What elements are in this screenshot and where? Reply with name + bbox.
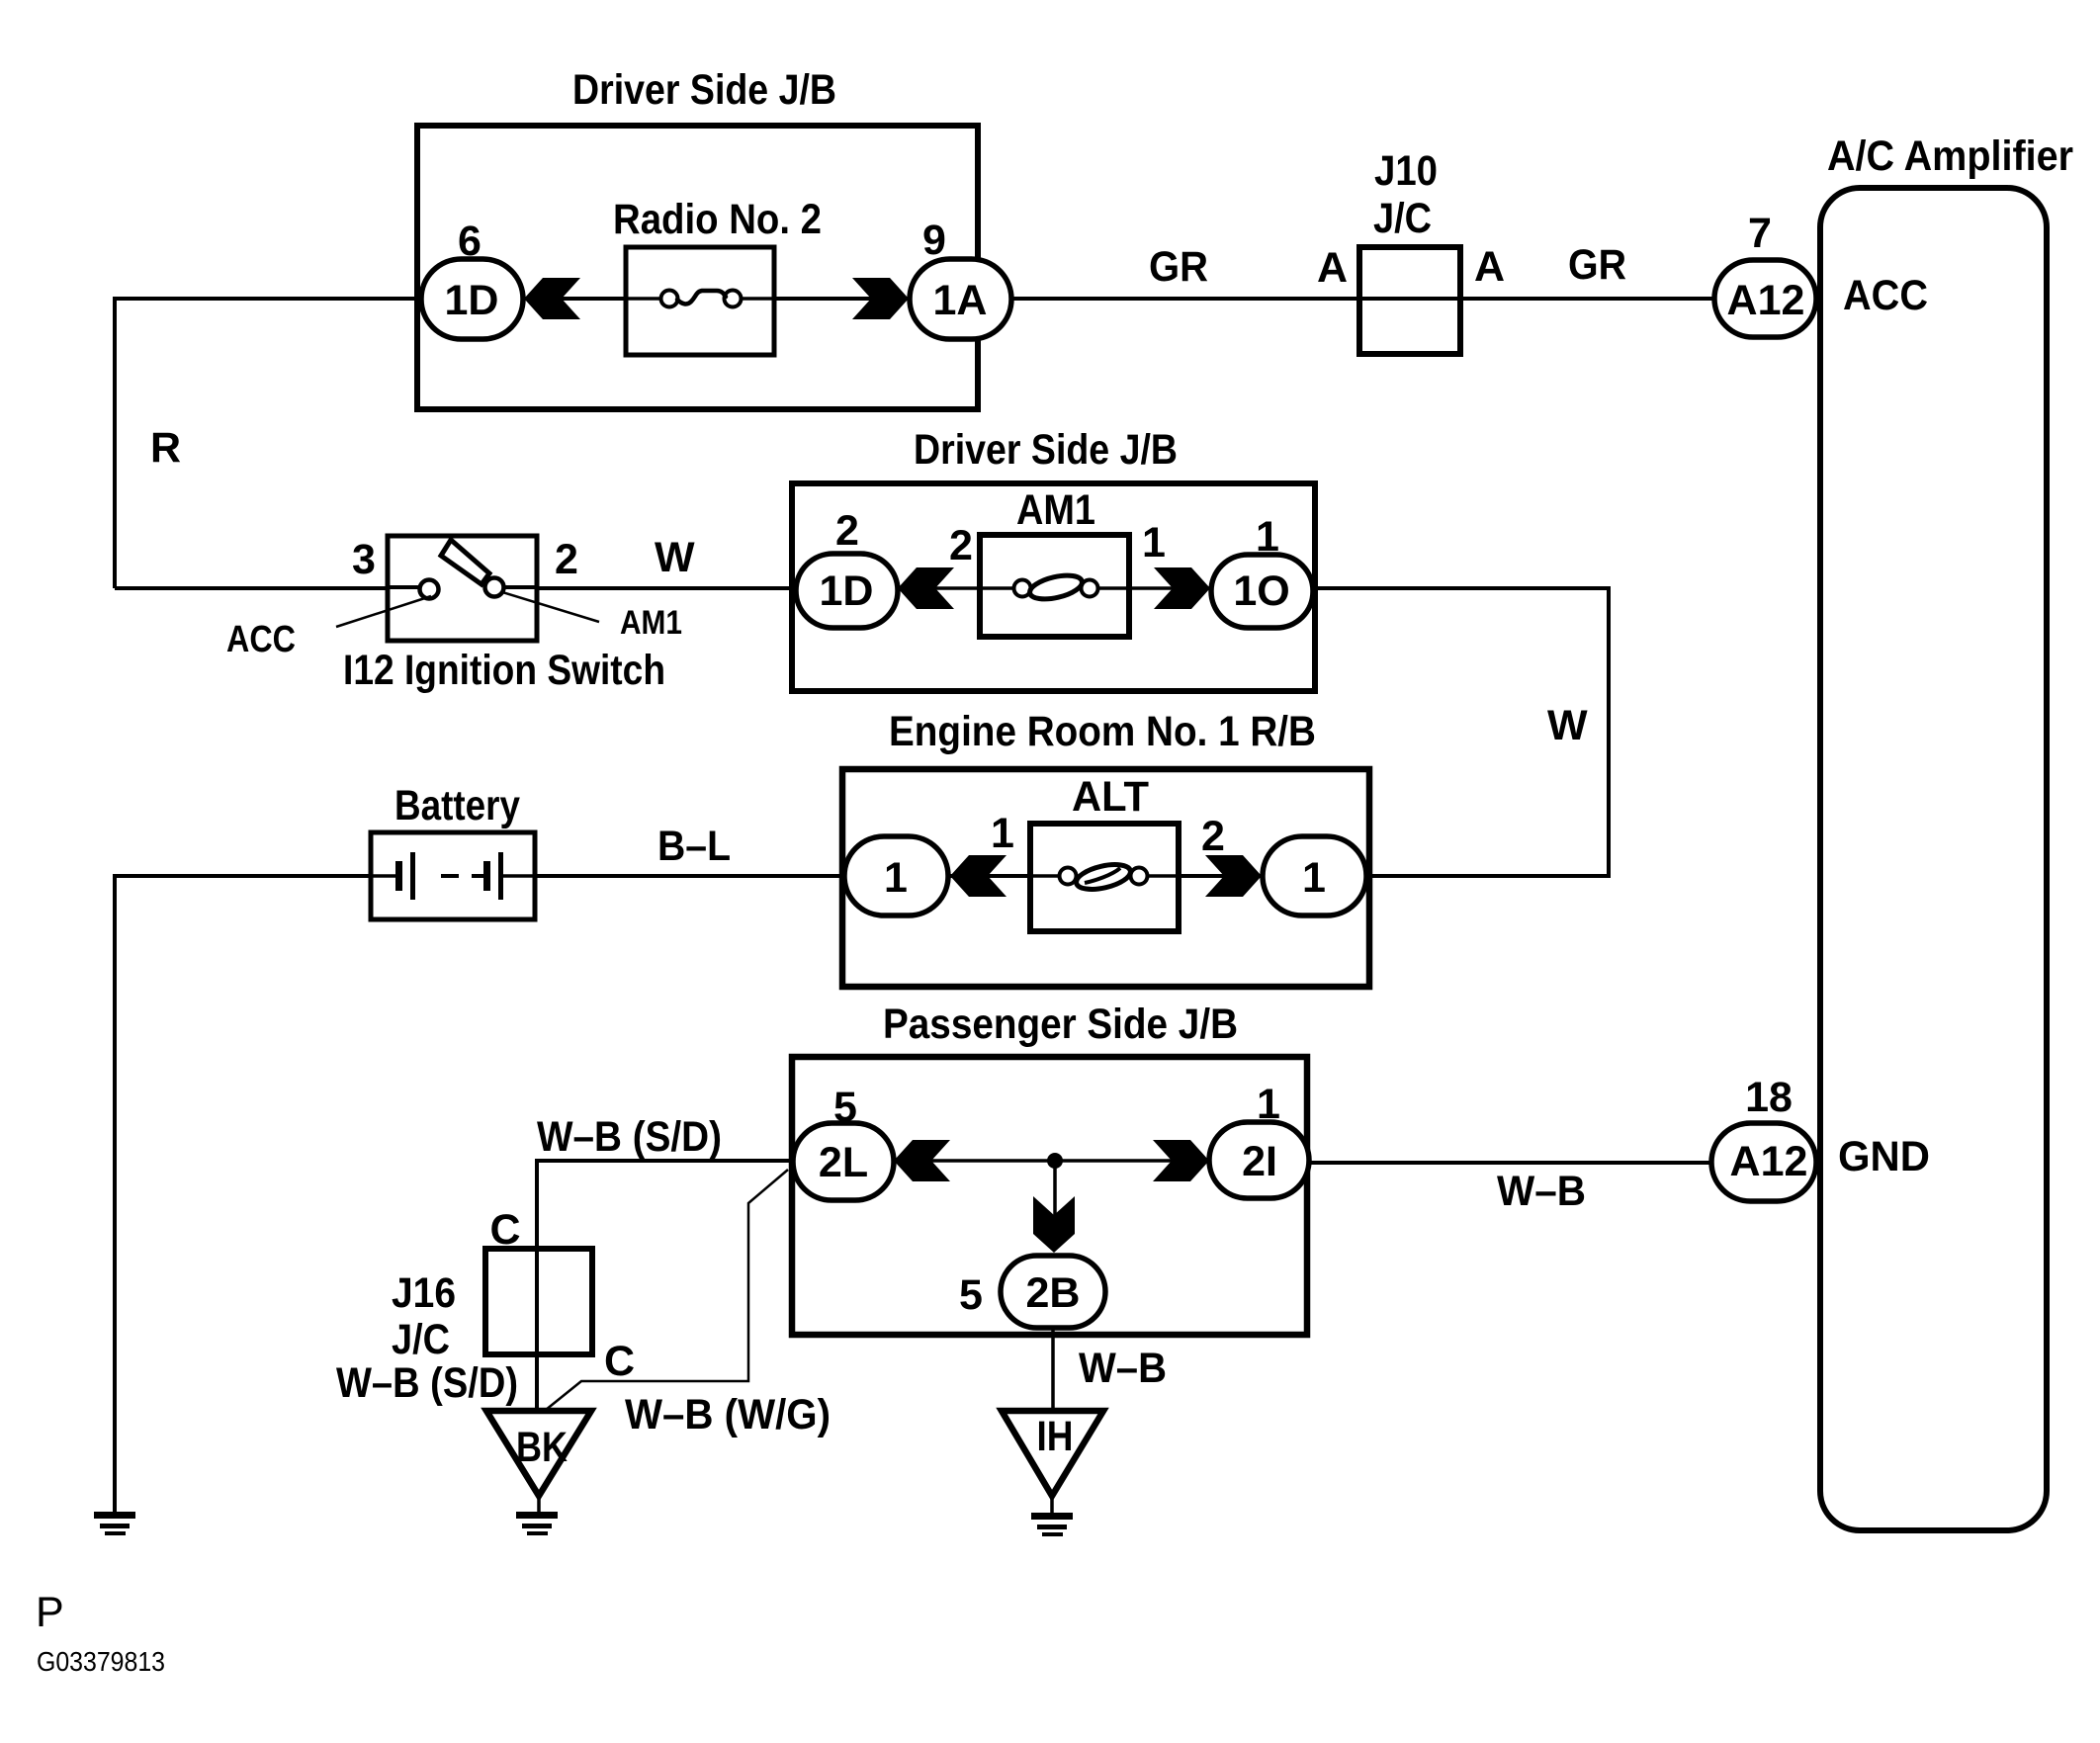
svg-text:J10: J10 xyxy=(1374,147,1438,195)
svg-text:2: 2 xyxy=(1201,813,1225,860)
wire: IH triangle to ground xyxy=(1050,1496,1054,1514)
svg-text:A: A xyxy=(1317,244,1348,292)
svg-text:2I: 2I xyxy=(1242,1138,1277,1185)
connector: oval 1O pin 1 xyxy=(1211,555,1313,628)
svg-text:5: 5 xyxy=(833,1084,857,1131)
svg-text:1: 1 xyxy=(991,810,1014,857)
arrow: left-pointing at 2L xyxy=(894,1140,950,1181)
svg-text:A12: A12 xyxy=(1730,1138,1808,1185)
svg-text:W: W xyxy=(1547,702,1588,749)
svg-text:AM1: AM1 xyxy=(1016,486,1095,534)
svg-text:7: 7 xyxy=(1748,210,1772,257)
svg-text:6: 6 xyxy=(458,218,481,265)
wire: battery negative down to ground xyxy=(113,874,117,1513)
connector: oval 1D pin 6 xyxy=(421,259,523,339)
svg-text:BK: BK xyxy=(516,1424,568,1471)
connector: oval A12 pin 7 (ACC) xyxy=(1714,260,1816,337)
junction: dot on W-B run xyxy=(1047,1153,1063,1169)
wire: W from 1O right, down to alternator output level xyxy=(1311,588,1609,876)
arrow: left-pointing engine room xyxy=(950,855,1006,897)
wire: R horizontal into ignition switch xyxy=(115,586,388,590)
svg-text:ACC: ACC xyxy=(226,619,296,660)
ground: IH triangle xyxy=(1002,1411,1103,1496)
svg-text:A: A xyxy=(1474,243,1505,291)
wire: stub to ACC contact xyxy=(388,585,421,589)
wire: ACC feed top horizontal (R/GR run) xyxy=(115,297,1714,301)
connector: oval 2I pin 1 xyxy=(1209,1122,1309,1198)
arrow: right-pointing at 2I xyxy=(1153,1140,1209,1181)
ground: BK ground symbol xyxy=(516,1512,558,1535)
svg-text:Driver Side J/B: Driver Side J/B xyxy=(572,66,836,114)
svg-text:C: C xyxy=(489,1206,520,1254)
svg-text:2L: 2L xyxy=(819,1139,868,1186)
svg-text:IH: IH xyxy=(1037,1413,1074,1460)
wire: R vertical from top wire down to ignition switch level xyxy=(113,297,117,588)
svg-text:W–B (S/D): W–B (S/D) xyxy=(537,1113,722,1161)
svg-text:1D: 1D xyxy=(820,567,874,615)
svg-text:AM1: AM1 xyxy=(620,604,682,642)
wire: battery B-L run to Engine Room R/B xyxy=(115,874,1266,878)
connector: oval 1 left (engine room) xyxy=(844,836,948,915)
wire: W-B from 2I to A12 GND xyxy=(1309,1161,1714,1165)
svg-text:J/C: J/C xyxy=(392,1316,450,1363)
svg-text:GR: GR xyxy=(1568,241,1626,289)
svg-text:2B: 2B xyxy=(1026,1269,1081,1317)
svg-text:18: 18 xyxy=(1745,1074,1793,1121)
arrow: down-pointing to 2B xyxy=(1033,1196,1075,1253)
wire: inside Passenger J/B between 2L and 2I xyxy=(890,1159,1214,1163)
fuse: AM1 fuse box xyxy=(980,535,1129,637)
box: Driver Side J/B no.2 xyxy=(792,483,1315,691)
wire: BK triangle to ground xyxy=(537,1496,541,1513)
ground: battery ground symbol xyxy=(94,1512,135,1535)
svg-text:W–B: W–B xyxy=(1079,1345,1167,1392)
connector: oval 1D pin 2 (middle box) xyxy=(796,554,898,628)
box: Engine Room No.1 R/B xyxy=(842,769,1369,987)
component: A/C Amplifier outline xyxy=(1820,188,2047,1530)
svg-text:W: W xyxy=(655,534,695,581)
svg-text:1D: 1D xyxy=(445,277,499,324)
arrow: right-pointing at 1O xyxy=(1154,567,1210,609)
svg-text:5: 5 xyxy=(959,1271,983,1319)
ground: IH ground symbol xyxy=(1031,1513,1073,1536)
svg-text:1A: 1A xyxy=(933,277,988,324)
wire: W-B (S/D) from 2L to J16 drop xyxy=(537,1159,796,1163)
svg-text:Passenger Side J/B: Passenger Side J/B xyxy=(883,1001,1238,1048)
svg-text:Battery: Battery xyxy=(394,782,520,829)
wire: W from ignition switch to Driver Side J/B no.2 xyxy=(537,586,801,590)
svg-text:Radio No. 2: Radio No. 2 xyxy=(613,196,822,243)
svg-text:P: P xyxy=(36,1589,64,1636)
svg-text:J16: J16 xyxy=(392,1269,456,1317)
svg-text:ALT: ALT xyxy=(1072,773,1149,821)
box: Driver Side J/B no.1 xyxy=(417,126,978,409)
svg-text:C: C xyxy=(604,1338,635,1385)
svg-text:1O: 1O xyxy=(1233,567,1289,615)
battery: battery box xyxy=(371,832,535,919)
switch: lever xyxy=(441,540,489,584)
svg-text:Driver Side J/B: Driver Side J/B xyxy=(914,426,1178,474)
callout line: AM1 xyxy=(502,592,599,622)
ground: BK triangle xyxy=(486,1411,591,1496)
svg-text:1: 1 xyxy=(884,854,908,902)
svg-text:1: 1 xyxy=(1302,854,1326,902)
wire: 2B down to IH triangle xyxy=(1051,1328,1055,1411)
switch: ACC contact xyxy=(420,580,439,599)
svg-text:A/C Amplifier: A/C Amplifier xyxy=(1827,132,2073,180)
svg-text:GND: GND xyxy=(1838,1133,1930,1180)
svg-text:2: 2 xyxy=(835,507,859,555)
svg-text:J/C: J/C xyxy=(1373,195,1432,242)
svg-text:2: 2 xyxy=(555,536,578,583)
wire: thin W-B (W/G) link from 2L to BK xyxy=(546,1170,788,1410)
svg-text:3: 3 xyxy=(352,536,376,583)
svg-text:W–B (W/G): W–B (W/G) xyxy=(625,1391,831,1438)
junction: J16 J/C box xyxy=(485,1249,592,1354)
connector: oval 1A pin 9 xyxy=(910,259,1011,339)
svg-text:1: 1 xyxy=(1257,1081,1280,1128)
switch: AM1 contact xyxy=(485,578,504,597)
svg-text:W–B (S/D): W–B (S/D) xyxy=(336,1359,518,1407)
callout line: ACC xyxy=(336,596,431,627)
svg-text:W–B: W–B xyxy=(1497,1168,1586,1215)
svg-text:Engine Room No. 1 R/B: Engine Room No. 1 R/B xyxy=(889,708,1316,755)
fuse: ALT fusible link box xyxy=(1030,824,1179,931)
switch: I12 ignition switch box xyxy=(388,536,537,641)
svg-text:G03379813: G03379813 xyxy=(37,1646,165,1677)
arrow: left-pointing at 1D xyxy=(524,278,580,319)
connector: oval A12 pin 18 (GND) xyxy=(1711,1123,1816,1201)
svg-text:1: 1 xyxy=(1256,513,1279,561)
svg-text:GR: GR xyxy=(1149,243,1208,291)
wire: stub from AM1 contact xyxy=(502,585,537,589)
wire: inside Driver Side J/B no.2 between 1D and 1O xyxy=(890,586,1216,590)
connector: oval 1 right (engine room) xyxy=(1263,836,1366,915)
junction: J10 J/C box xyxy=(1359,247,1460,354)
svg-text:R: R xyxy=(150,424,181,472)
svg-text:1: 1 xyxy=(1142,519,1166,566)
svg-text:ACC: ACC xyxy=(1843,272,1928,319)
svg-text:I12 Ignition Switch: I12 Ignition Switch xyxy=(343,647,665,694)
box: Passenger Side J/B xyxy=(792,1057,1307,1335)
arrow: right-pointing engine room xyxy=(1205,855,1262,897)
svg-text:9: 9 xyxy=(922,217,946,264)
arrow: left-pointing at 1D middle xyxy=(898,567,954,609)
connector: oval 2L pin 5 xyxy=(793,1123,894,1200)
svg-text:A12: A12 xyxy=(1727,277,1805,324)
arrow: right-pointing at 1A xyxy=(852,278,909,319)
wire: branch down from junction dot xyxy=(1053,1161,1057,1226)
svg-text:2: 2 xyxy=(949,522,973,569)
connector: oval 2B pin 5 xyxy=(1001,1256,1105,1328)
svg-text:B–L: B–L xyxy=(657,823,731,870)
fuse: Radio No. 2 fuse box xyxy=(626,247,774,355)
wire: J16 drop wire down to BK ground xyxy=(535,1159,539,1411)
